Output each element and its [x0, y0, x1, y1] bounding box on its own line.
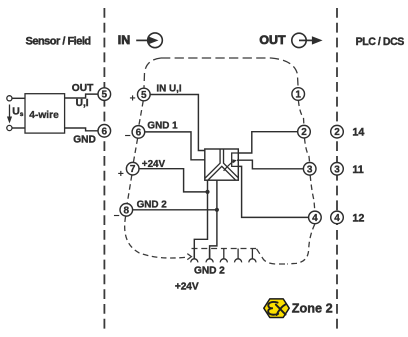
- wire 4-wire box GND to terminal 6: [65, 128, 98, 131]
- device outline between input 5 and 6: [139, 101, 143, 125]
- device outline top edge: [161, 57, 271, 59]
- PLC terminal 3: [331, 163, 344, 176]
- svg-text:1: 1: [295, 90, 301, 101]
- svg-text:11: 11: [352, 164, 363, 176]
- device outline bottom-right curve: [287, 224, 315, 264]
- svg-text:2: 2: [334, 127, 340, 138]
- svg-text:−: −: [125, 130, 131, 142]
- device outline bottom-left curve: [125, 216, 186, 258]
- svg-text:5: 5: [102, 90, 108, 101]
- svg-text:GND 2: GND 2: [137, 200, 168, 211]
- wire isolator power left leg to bus contact 1: [194, 180, 207, 259]
- svg-text:2: 2: [301, 127, 307, 138]
- wire input 5 to isolator: [150, 95, 205, 151]
- svg-text:GND 2: GND 2: [194, 266, 225, 277]
- svg-text:5: 5: [141, 90, 147, 101]
- svg-text:+24V: +24V: [142, 159, 166, 170]
- output terminal 3: [303, 163, 316, 176]
- isolator Y barrier double lines: [203, 147, 240, 182]
- wire 4-wire box OUT to terminal 5: [65, 94, 98, 98]
- output terminal 1: [292, 88, 305, 101]
- svg-text:12: 12: [352, 212, 364, 224]
- wire supply top to 4-wire box: [12, 97, 25, 99]
- output terminal 2: [298, 125, 311, 138]
- input terminal 6: [132, 126, 145, 139]
- svg-text:GND 1: GND 1: [147, 120, 178, 131]
- wire isolator to output 4: [238, 166, 308, 217]
- device outline chevron at bus start: [187, 254, 191, 260]
- PLC terminal 2: [331, 125, 344, 138]
- wire input 8 GND2: [133, 209, 217, 211]
- svg-text:4-wire: 4-wire: [29, 110, 59, 121]
- device outline bus contact dashed line: [192, 248, 257, 250]
- supply source circle bottom: [7, 125, 12, 130]
- wire isolator to output 2: [238, 132, 297, 153]
- svg-text:3: 3: [334, 164, 340, 175]
- svg-text:+: +: [130, 93, 136, 105]
- svg-text:Zone 2: Zone 2: [292, 302, 333, 316]
- svg-text:Sensor / Field: Sensor / Field: [26, 35, 91, 47]
- svg-text:OUT: OUT: [72, 83, 94, 94]
- bus contact 3: [220, 249, 227, 263]
- svg-text:U,I: U,I: [76, 98, 89, 109]
- svg-text:14: 14: [352, 127, 364, 139]
- device outline top-right corner: [271, 58, 298, 87]
- device outline between output 3 and 4: [310, 175, 315, 211]
- svg-text:3: 3: [307, 164, 313, 175]
- wire input 6 GND1 to isolator: [145, 132, 205, 160]
- device outline between input 7 and 8: [127, 175, 132, 203]
- bus contact 4: [235, 249, 242, 263]
- svg-text:8: 8: [124, 205, 130, 216]
- svg-text:OUT: OUT: [259, 33, 286, 47]
- wire supply bottom to 4-wire box: [12, 127, 25, 129]
- Ex hexagon badge: [264, 299, 289, 318]
- 4-wire transmitter box: [25, 94, 65, 133]
- bus contact 1: [191, 249, 198, 263]
- svg-text:6: 6: [136, 127, 142, 138]
- svg-text:4: 4: [334, 213, 340, 224]
- wire isolator to output 3: [237, 160, 303, 169]
- IN port symbol: [118, 33, 163, 48]
- device outline between output 2 and 3: [305, 138, 310, 162]
- bus contact 2: [206, 249, 213, 263]
- svg-text:+: +: [118, 168, 124, 180]
- device outline top-left corner: [144, 58, 161, 88]
- PLC/DCS boundary dashed line: [336, 8, 338, 332]
- svg-text:7: 7: [130, 164, 136, 175]
- svg-text:IN: IN: [118, 33, 130, 47]
- junction +24V: [205, 190, 209, 194]
- svg-text:6: 6: [102, 126, 108, 137]
- OUT port symbol: [259, 33, 322, 48]
- input terminal 7: [126, 162, 139, 175]
- svg-text:PLC / DCS: PLC / DCS: [356, 36, 405, 48]
- Us voltage arrow: [7, 105, 12, 124]
- svg-text:4: 4: [312, 213, 318, 224]
- device outline between output 1 and 2: [298, 100, 304, 125]
- svg-text:+24V: +24V: [175, 282, 199, 293]
- isolator U1 body: [205, 149, 239, 180]
- device outline between input 6 and 7: [133, 138, 137, 162]
- output terminal 4: [309, 211, 322, 224]
- output stage bracket: [232, 153, 239, 166]
- svg-text:GND: GND: [73, 135, 96, 146]
- supply source circle top: [7, 96, 12, 101]
- input terminal 5: [138, 88, 151, 101]
- output adjust arrow: [224, 159, 237, 170]
- svg-text:IN U,I: IN U,I: [156, 84, 181, 95]
- svg-text:−: −: [114, 210, 120, 222]
- junction GND2: [215, 208, 219, 212]
- input terminal 8: [120, 204, 133, 217]
- terminal circle 6 field: [98, 125, 111, 138]
- sensor/field boundary dashed line: [103, 8, 105, 332]
- terminal circle 5 field: [98, 88, 111, 101]
- bus contact 5: [249, 249, 256, 263]
- wire input 7 +24V: [139, 169, 208, 192]
- PLC terminal 4: [331, 211, 344, 224]
- device outline after bus contacts: [257, 249, 289, 264]
- wire isolator power right leg to bus contact 2: [210, 180, 217, 259]
